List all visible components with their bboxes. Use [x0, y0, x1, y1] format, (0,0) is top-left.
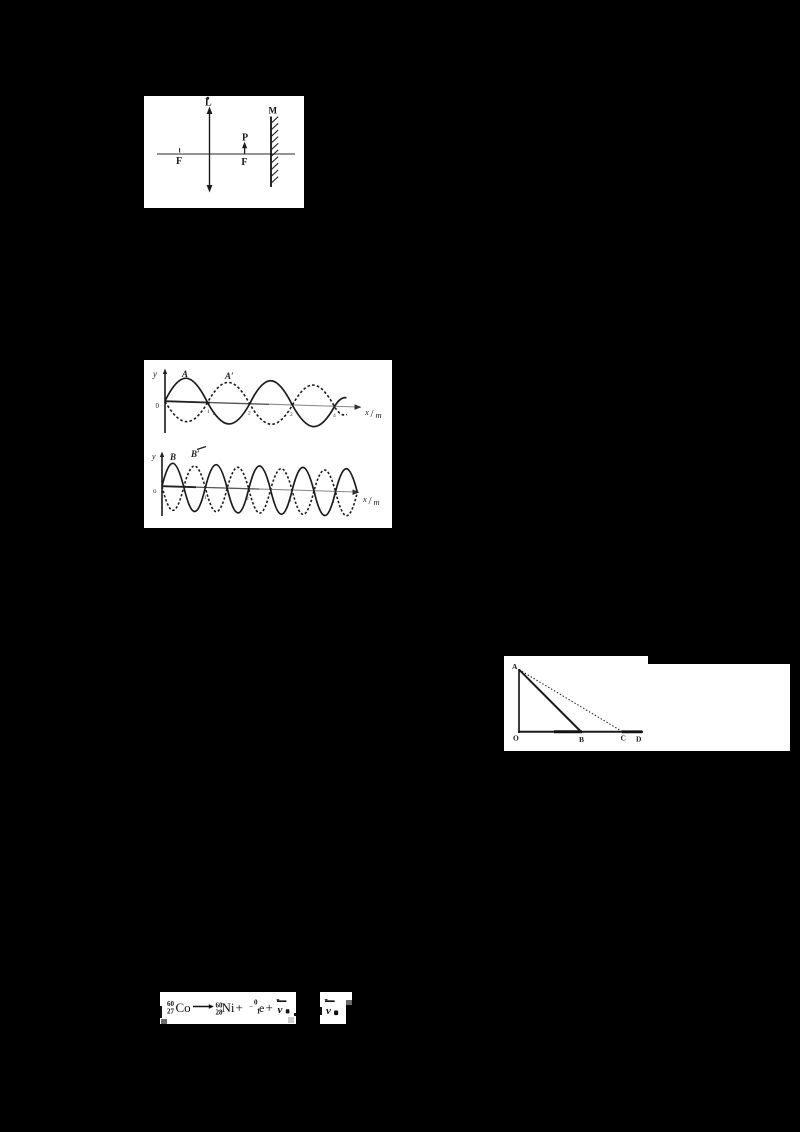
svg-text:/: /: [371, 408, 375, 420]
svg-text:2: 2: [248, 411, 251, 417]
svg-text:B: B: [579, 735, 584, 744]
svg-text:x: x: [362, 494, 367, 504]
svg-text:B′: B′: [190, 449, 200, 459]
svg-text:C: C: [621, 734, 626, 743]
svg-text:O: O: [513, 734, 519, 743]
svg-text:v: v: [277, 1004, 282, 1016]
svg-text:F: F: [241, 157, 247, 168]
svg-text:0: 0: [156, 402, 160, 410]
svg-text:27: 27: [167, 1007, 175, 1015]
svg-text:–: –: [248, 1002, 253, 1010]
svg-text:o: o: [153, 487, 157, 495]
svg-text:s: s: [332, 499, 334, 505]
svg-text:2: 2: [290, 412, 293, 418]
svg-text:/: /: [369, 495, 373, 507]
svg-text:L: L: [205, 98, 212, 109]
svg-text:m: m: [376, 410, 382, 420]
svg-text:2: 2: [246, 496, 249, 502]
svg-text:e: e: [259, 1001, 264, 1015]
svg-text:M: M: [269, 106, 278, 116]
svg-text:+: +: [235, 1000, 242, 1015]
svg-text:P: P: [242, 133, 248, 144]
svg-text:F: F: [176, 156, 182, 167]
svg-text:Co: Co: [175, 1000, 190, 1015]
svg-text:v: v: [326, 1005, 331, 1017]
svg-text:0: 0: [254, 998, 258, 1006]
svg-text:A′: A′: [224, 371, 234, 381]
svg-text:B: B: [169, 452, 176, 462]
svg-text:1: 1: [207, 409, 210, 415]
svg-text:+: +: [265, 1000, 272, 1015]
svg-text:Ni: Ni: [221, 1000, 234, 1015]
svg-text:x: x: [364, 407, 369, 417]
svg-text:1: 1: [204, 495, 207, 501]
svg-text:y: y: [151, 452, 156, 461]
svg-text:A: A: [512, 662, 518, 671]
svg-text:y: y: [152, 369, 157, 379]
svg-text:1: 1: [289, 498, 292, 504]
svg-text:D: D: [636, 735, 642, 744]
svg-text:m: m: [374, 497, 380, 507]
svg-text:4: 4: [333, 413, 336, 419]
